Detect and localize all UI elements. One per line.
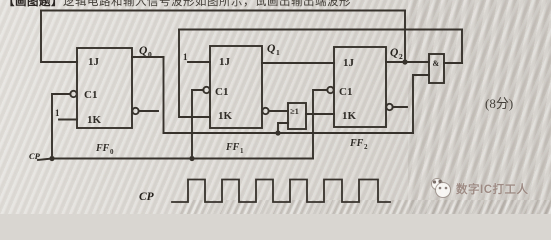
flip-flop FF1 [210, 46, 262, 128]
clipped problem text at top [3, 0, 423, 10]
FF1 clock bubble [203, 87, 209, 93]
wire: FF0 K stub [59, 119, 77, 121]
FF1 Qbar bubble [262, 108, 268, 114]
svg-text:1J: 1J [88, 56, 100, 68]
wire: AND output [444, 62, 462, 64]
FF2 clock bubble [327, 87, 333, 93]
svg-text:FF: FF [225, 142, 240, 153]
FF2 Qbar bubble [386, 104, 392, 110]
svg-text:0: 0 [110, 148, 114, 156]
wire: Q1bar to OR input [269, 110, 288, 112]
junction: CP to FF1 clock [189, 156, 194, 161]
junction: CP to FF0 clock [49, 156, 54, 161]
svg-text:Q: Q [139, 45, 147, 57]
or-gate G1 [288, 103, 306, 129]
svg-text:CP: CP [139, 191, 155, 203]
junction: OR input dot on Q0 line [275, 130, 280, 135]
wire: OR second input from Q0 line [278, 123, 288, 133]
wire: Q2bar stub [393, 106, 407, 108]
wire: feedback line B (AND out to K1) [179, 29, 462, 31]
wire: feedback line A (Q2 to J0) [41, 10, 405, 12]
FF0 clock bubble [70, 91, 76, 97]
score note (8分) [485, 93, 513, 112]
svg-text:1K: 1K [342, 110, 357, 122]
svg-text:≥1: ≥1 [290, 106, 299, 116]
wire: CP clock line [38, 159, 313, 161]
svg-text:C1: C1 [215, 86, 228, 98]
flip-flop FF0 [77, 48, 132, 128]
FF0 Qbar bubble [132, 108, 138, 114]
wire: Q2 to AND input [386, 61, 429, 63]
wire: Q0 distribution line [164, 132, 414, 134]
svg-text:&: & [433, 59, 440, 68]
svg-text:C1: C1 [84, 89, 97, 101]
wire: line B left drop to K1 [179, 30, 210, 118]
wire: line A left drop to J0 [41, 11, 77, 63]
waveform: CP clock pulses [172, 180, 390, 203]
svg-text:1J: 1J [343, 57, 355, 69]
wire: Q1 to FF2 J [262, 62, 334, 64]
svg-text:1: 1 [183, 52, 188, 62]
wire: OR output to FF2 K [306, 113, 334, 115]
wire: FF1 J stub [188, 61, 210, 63]
wire: FF0 clock to CP [52, 94, 70, 155]
svg-text:FF: FF [95, 143, 110, 154]
svg-text:2: 2 [399, 52, 403, 61]
wire: Q0 output to vertical [132, 56, 164, 58]
svg-text:1K: 1K [87, 114, 102, 126]
wire: line B right drop to AND output [461, 30, 463, 64]
svg-text:Q: Q [390, 47, 398, 59]
svg-text:FF: FF [349, 138, 364, 149]
svg-text:1J: 1J [219, 56, 231, 68]
wire: Q0 vertical drop [163, 57, 165, 133]
svg-text:1: 1 [240, 147, 244, 155]
svg-text:1: 1 [55, 108, 60, 118]
wire: FF1 clock to CP [192, 90, 203, 155]
wire: line A right drop to Q2 node [404, 11, 406, 63]
wire: FF2 clock to CP [313, 90, 327, 158]
and-gate G2 [429, 54, 444, 83]
svg-text:1: 1 [276, 48, 280, 57]
junction: Q2 node dot [402, 59, 407, 64]
svg-text:Q: Q [267, 43, 275, 55]
wire: Q0bar stub [139, 110, 158, 112]
svg-text:1K: 1K [218, 110, 233, 122]
wire: AND lower input from Q0 line [413, 75, 429, 133]
watermark logo and text [429, 177, 549, 199]
flip-flop FF2 [334, 47, 386, 127]
svg-text:C1: C1 [339, 86, 352, 98]
svg-text:2: 2 [364, 143, 368, 151]
